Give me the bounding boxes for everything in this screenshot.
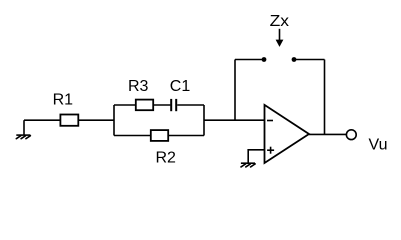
wire node A to R2 [114,135,151,137]
op-amp U1 [265,105,310,163]
wire node A to R3 [114,104,136,106]
svg-text:R1: R1 [53,91,74,108]
arrow Zx pointer [276,29,284,47]
junction dot Zx left terminal [262,57,267,62]
wire node B to op-amp inverting input [204,119,264,121]
node B (right rail of parallel network) [203,105,205,136]
wire R3 to C1 [153,104,170,106]
ground G1 (input ground) [16,120,30,139]
resistor R2 [151,130,168,141]
svg-text:R3: R3 [128,78,149,95]
wire R2 to node B [168,135,204,137]
svg-text:Vu: Vu [369,137,388,154]
resistor R3 [136,100,153,111]
wire R1 to node A [78,119,114,121]
wire ground to R1 [24,119,60,121]
svg-text:C1: C1 [170,78,191,95]
wire op-amp non-inverting input [248,150,264,163]
capacitor C1 [171,99,176,111]
wire C1 to node B [177,104,204,106]
wire feedback right leg [324,60,326,135]
wire feedback top right [294,59,325,61]
node A (left rail of parallel network) [113,105,115,136]
terminal Vu (open circle) [346,130,356,140]
wire op-amp output [309,133,346,135]
svg-text:R2: R2 [155,149,176,166]
ground G2 (op-amp + input ground) [241,163,255,167]
wire feedback left leg [234,60,236,121]
wire feedback top left [235,59,264,61]
resistor R1 [60,115,78,126]
junction dot Zx right terminal [292,57,297,62]
svg-text:Zx: Zx [270,13,289,30]
